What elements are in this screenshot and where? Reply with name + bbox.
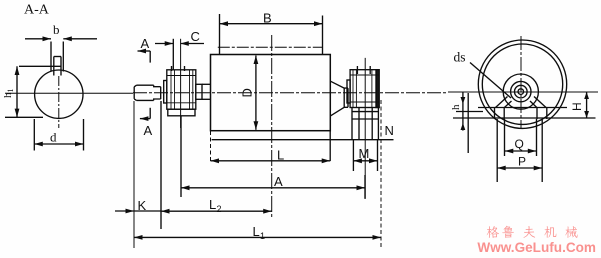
svg-text:P: P [518,155,526,169]
svg-text:h1: h1 [2,89,15,99]
svg-text:C: C [191,29,200,44]
svg-text:1: 1 [260,231,265,241]
svg-text:H: H [570,102,584,111]
svg-text:N: N [385,123,394,138]
svg-text:K: K [138,198,147,213]
svg-text:D: D [240,88,255,97]
svg-text:ds: ds [454,50,466,65]
svg-text:Www.GeLufu.Com: Www.GeLufu.Com [477,239,596,255]
svg-text:L: L [209,197,216,212]
svg-text:B: B [263,11,272,26]
svg-text:h: h [450,104,462,110]
svg-text:L: L [253,224,260,239]
svg-text:A: A [141,36,150,51]
svg-text:A: A [144,123,153,138]
svg-text:A-A: A-A [24,3,50,18]
svg-text:M: M [359,146,370,161]
svg-text:d: d [50,130,57,145]
svg-text:b: b [53,22,60,37]
svg-text:L: L [277,148,284,163]
svg-text:Q: Q [515,137,524,151]
svg-text:A: A [274,174,283,189]
svg-text:2: 2 [217,204,222,214]
